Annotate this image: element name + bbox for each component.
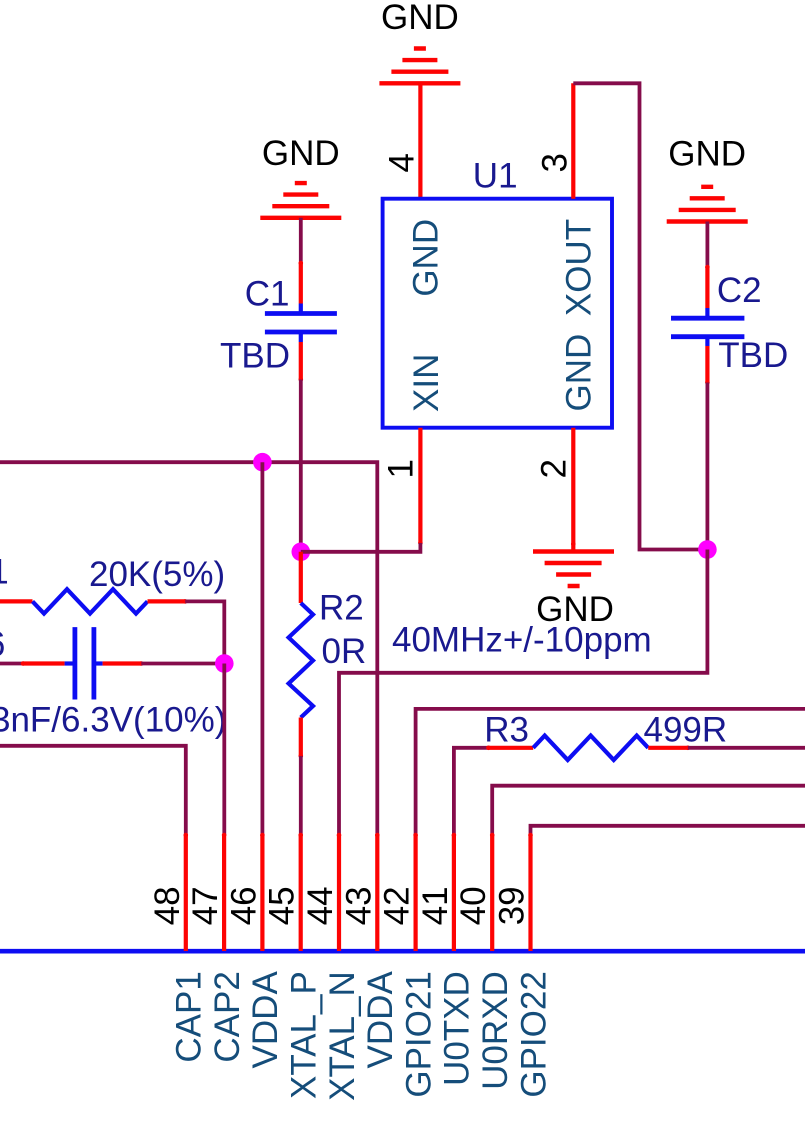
svg-text:1: 1 [381,459,420,478]
pin 47 CAP2 [186,833,247,1063]
op-amp U1 body rectangle [383,199,612,428]
pin 45 XTAL_P [263,833,324,1099]
wire left edge to cap [0,662,23,666]
pin 2 of U1 (red stub) [571,428,575,552]
svg-text:GPIO22: GPIO22 [514,971,553,1097]
svg-text:VDDA: VDDA [246,971,285,1069]
svg-text:0R: 0R [322,632,367,671]
svg-text:39: 39 [493,886,532,925]
wire junction A to U1 pin 1 [301,543,421,552]
junction A at (300.8,551.8) [292,543,311,562]
IC body edge (blue line) [0,949,805,954]
wire junction down to pin 46 [260,462,264,835]
wire pin 42 route [416,709,805,835]
pin 41 U0TXD [416,833,477,1086]
svg-text:46: 46 [224,886,263,925]
svg-text:CAP1: CAP1 [170,971,209,1062]
wire pin 40 route [492,786,805,835]
ground GND (above C1) [260,134,341,218]
resistor 20K(5%) [0,555,225,614]
svg-text:VDDA: VDDA [361,971,400,1069]
svg-text:U0TXD: U0TXD [438,971,477,1086]
pin 40 U0RXD [454,833,515,1090]
ground GND (top, above U1 pin 4) [379,0,460,83]
pin 39 GPIO22 [493,833,554,1098]
svg-text:48: 48 [148,886,187,925]
pin 42 GPIO21 [378,833,439,1098]
svg-text:U0RXD: U0RXD [476,971,515,1090]
svg-text:GND: GND [560,334,599,412]
pin 46 VDDA [224,833,285,1069]
wire C1 to junction A [299,380,303,552]
svg-text:GND: GND [407,219,446,297]
pin 44 XTAL_N [301,833,362,1101]
svg-text:2: 2 [534,459,573,478]
svg-text:GND: GND [262,134,340,173]
svg-text:3nF/6.3V(10%): 3nF/6.3V(10%) [0,701,226,740]
svg-text:40: 40 [454,886,493,925]
svg-text:4: 4 [382,153,421,172]
wire GND to C1 [299,218,303,263]
pin 1 of U1 (red stub) [418,428,422,543]
junction at (262.4,462.2) [253,453,272,472]
svg-text:44: 44 [301,886,340,925]
capacitor 3nF (horizontal) [0,627,226,739]
svg-text:U1: U1 [473,157,518,196]
wire pin 41 up and R3 left lead [454,748,489,835]
svg-text:45: 45 [263,886,302,925]
svg-text:GPIO21: GPIO21 [399,971,438,1097]
pin 3 of U1 (red stub) [571,83,575,198]
svg-text:XIN: XIN [407,354,446,412]
svg-text:XTAL_N: XTAL_N [323,971,362,1101]
capacitor C1 [220,261,337,382]
svg-text:CAP2: CAP2 [208,971,247,1062]
ground GND (below U1 pin 2, inverted) [533,552,614,630]
svg-text:43: 43 [339,886,378,925]
wire GND to C2 [706,222,710,268]
wire pin 39 route [531,826,805,835]
capacitor C2 [671,265,788,385]
svg-text:R2: R2 [319,589,364,628]
svg-text:XTAL_P: XTAL_P [285,971,324,1099]
svg-text:XOUT: XOUT [560,219,599,316]
ground GND (above C2) [667,135,748,222]
svg-text:47: 47 [186,886,225,925]
svg-text:499R: 499R [644,711,728,750]
svg-text:41: 41 [416,886,455,925]
resistor R2 [289,552,367,759]
svg-text:C2: C2 [717,271,762,310]
wire junction B down and left to pin 44 [339,550,707,836]
svg-text:C1: C1 [245,275,290,314]
svg-text:R3: R3 [484,711,529,750]
svg-text:40MHz+/-10ppm: 40MHz+/-10ppm [392,621,652,660]
pin 48 CAP1 [148,833,209,1063]
svg-text:20K(5%): 20K(5%) [89,555,225,594]
resistor R3 [484,711,727,761]
wire R3 right to edge [688,746,805,750]
svg-text:1: 1 [0,553,9,592]
svg-text:3: 3 [535,153,574,172]
wire C2 to junction B [706,383,710,550]
wire 20K to junction C [185,601,224,663]
wire junction C down to pin 47 [222,664,226,836]
wire cap to junction C [141,662,224,666]
pin 43 VDDA [339,833,400,1069]
wire R2 to pin 45 [299,756,303,835]
junction C at (224.3,663.5) [215,654,234,673]
svg-text:42: 42 [378,886,417,925]
svg-text:TBD: TBD [718,336,788,375]
svg-text:6: 6 [0,625,5,664]
wire U1 pin3 top route [573,83,707,549]
junction B at (707.4,549.5) [698,540,717,559]
wire left edge to pin 48 [0,746,186,835]
svg-text:GND: GND [668,135,746,174]
pin 4 of U1 (red stub) [418,83,422,198]
svg-text:TBD: TBD [220,337,290,376]
svg-text:GND: GND [381,0,459,37]
wire VDDA horizontal y=462.2 [0,462,377,835]
